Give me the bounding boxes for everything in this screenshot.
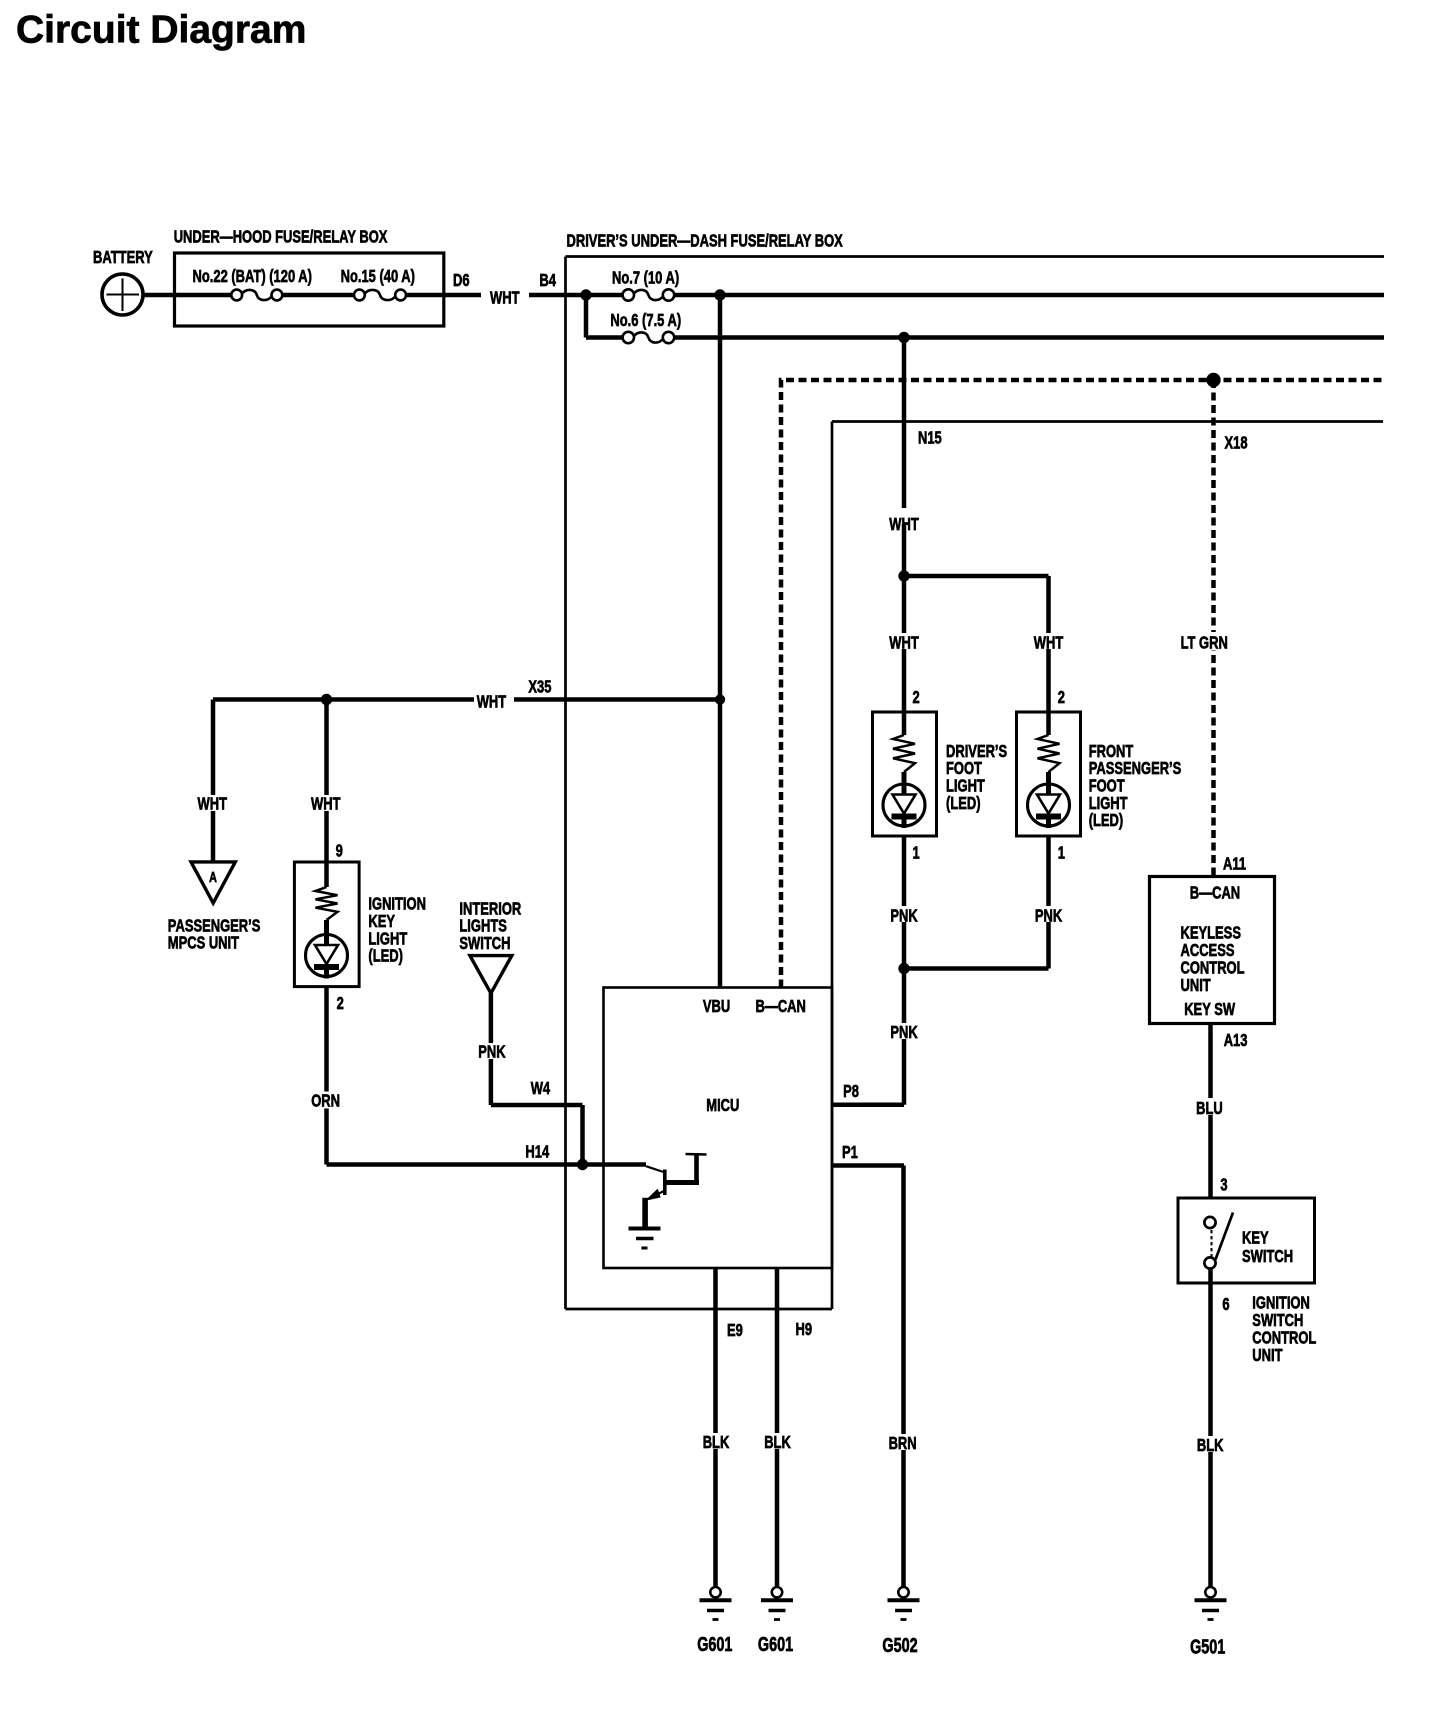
svg-text:(LED): (LED) [946,794,981,814]
svg-text:BATTERY: BATTERY [93,248,153,268]
svg-text:KEY SW: KEY SW [1184,1000,1235,1020]
svg-text:BRN: BRN [889,1434,917,1454]
svg-text:G601: G601 [758,1633,793,1656]
svg-text:6: 6 [1222,1295,1229,1315]
svg-text:PNK: PNK [890,1023,918,1043]
svg-text:9: 9 [336,841,343,861]
svg-text:MPCS UNIT: MPCS UNIT [168,934,240,954]
svg-text:PNK: PNK [890,907,918,927]
svg-text:DRIVER’S UNDER—DASH FUSE/RELAY: DRIVER’S UNDER—DASH FUSE/RELAY BOX [567,232,844,252]
svg-text:B—CAN: B—CAN [756,997,806,1017]
svg-text:G501: G501 [1190,1635,1225,1658]
svg-text:2: 2 [913,688,920,708]
svg-text:WHT: WHT [889,634,919,654]
svg-text:PNK: PNK [478,1043,506,1063]
svg-text:PNK: PNK [1035,907,1063,927]
svg-text:X35: X35 [528,678,551,698]
svg-text:BLU: BLU [1196,1099,1223,1119]
svg-text:B—CAN: B—CAN [1190,884,1240,904]
svg-text:P1: P1 [842,1143,858,1163]
svg-text:ORN: ORN [311,1092,340,1112]
svg-text:No.7 (10 A): No.7 (10 A) [612,269,679,289]
svg-text:No.15 (40 A): No.15 (40 A) [341,267,415,287]
svg-text:A11: A11 [1223,855,1246,875]
svg-text:Circuit Diagram: Circuit Diagram [16,9,306,52]
svg-text:2: 2 [1058,688,1065,708]
svg-text:3: 3 [1220,1176,1227,1196]
svg-text:1: 1 [913,843,920,863]
svg-text:SWITCH: SWITCH [459,934,510,954]
svg-text:N15: N15 [918,429,942,449]
svg-text:UNIT: UNIT [1181,976,1212,996]
svg-text:UNIT: UNIT [1252,1346,1283,1366]
svg-text:VBU: VBU [703,997,730,1017]
svg-text:WHT: WHT [311,794,341,814]
svg-text:(LED): (LED) [368,947,403,967]
svg-text:P8: P8 [843,1082,859,1102]
svg-text:SWITCH: SWITCH [1242,1247,1293,1267]
svg-text:H14: H14 [525,1143,549,1163]
svg-text:WHT: WHT [490,288,520,308]
svg-text:BLK: BLK [764,1433,791,1453]
svg-text:B4: B4 [539,271,556,291]
svg-text:LT GRN: LT GRN [1181,634,1228,654]
svg-text:WHT: WHT [477,693,507,713]
svg-text:X18: X18 [1225,434,1248,454]
svg-text:BLK: BLK [703,1433,730,1453]
svg-text:G502: G502 [882,1634,917,1657]
svg-text:2: 2 [337,994,344,1014]
svg-text:1: 1 [1058,843,1065,863]
svg-text:No.6 (7.5 A): No.6 (7.5 A) [610,311,681,331]
svg-text:WHT: WHT [1034,634,1064,654]
svg-text:MICU: MICU [706,1096,739,1116]
svg-text:UNDER—HOOD FUSE/RELAY BOX: UNDER—HOOD FUSE/RELAY BOX [174,228,388,248]
svg-text:W4: W4 [531,1079,551,1099]
svg-text:BLK: BLK [1197,1436,1224,1456]
svg-text:(LED): (LED) [1089,811,1124,831]
svg-text:A: A [209,868,217,885]
svg-text:WHT: WHT [198,794,228,814]
svg-text:E9: E9 [727,1321,743,1341]
svg-text:KEY: KEY [1242,1229,1269,1249]
svg-text:A13: A13 [1224,1031,1248,1051]
svg-text:D6: D6 [453,271,470,291]
svg-text:G601: G601 [697,1633,732,1656]
svg-text:H9: H9 [796,1320,813,1340]
svg-text:WHT: WHT [889,515,919,535]
svg-text:No.22 (BAT) (120 A): No.22 (BAT) (120 A) [193,267,312,287]
